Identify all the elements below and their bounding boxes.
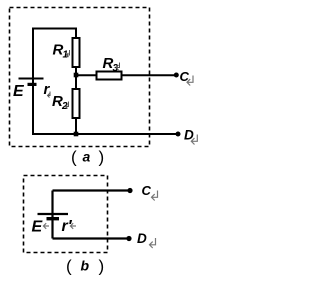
svg-text:): ): [99, 257, 105, 276]
svg-text:D: D: [137, 231, 147, 246]
svg-text:b: b: [81, 258, 90, 274]
svg-text:): ): [99, 148, 105, 167]
svg-text:(: (: [71, 148, 77, 167]
svg-text:a: a: [83, 149, 91, 165]
svg-text:E: E: [32, 219, 44, 236]
svg-text:E: E: [13, 83, 25, 100]
svg-text:(: (: [66, 257, 72, 276]
svg-text:C: C: [142, 183, 152, 198]
